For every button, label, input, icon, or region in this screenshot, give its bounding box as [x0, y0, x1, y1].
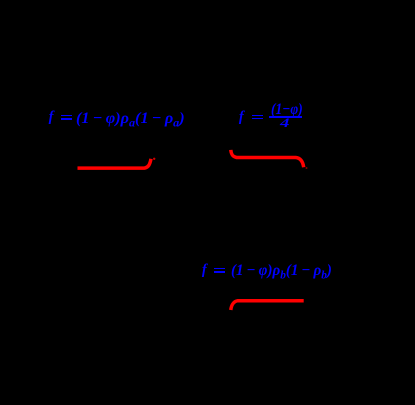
formula 2: f [239, 110, 244, 125]
faint dot right of middle curve [306, 167, 308, 169]
formula 1 body: (1-phi)rho_a(1-rho_a) [76, 111, 185, 127]
formula 1: equals sign bottom bar [61, 118, 72, 120]
density profile curve segment b (right lattice) [231, 301, 304, 310]
formula 3: equals sign top bar [214, 268, 225, 270]
formula 3 body: (1-phi)rho_b(1-rho_b) [231, 263, 332, 279]
density profile curve segment a (left lattice) [78, 159, 152, 168]
formula 2 numerator (1-phi) [271, 102, 303, 118]
formula 2 fraction bar [269, 116, 303, 118]
formula 1: f [49, 110, 54, 125]
formula 1: equals sign top bar [61, 115, 72, 117]
density profile curve segment (1-phi)/4 branch (middle) [231, 150, 304, 167]
formula 2: equals sign top bar [252, 115, 263, 117]
formula 2 denominator 4 [280, 116, 289, 129]
formula 3: equals sign bottom bar [214, 271, 225, 273]
formula 3: f [202, 263, 207, 278]
formula 2: equals sign bottom bar [252, 118, 263, 120]
detached dot right of curve a [153, 158, 155, 160]
